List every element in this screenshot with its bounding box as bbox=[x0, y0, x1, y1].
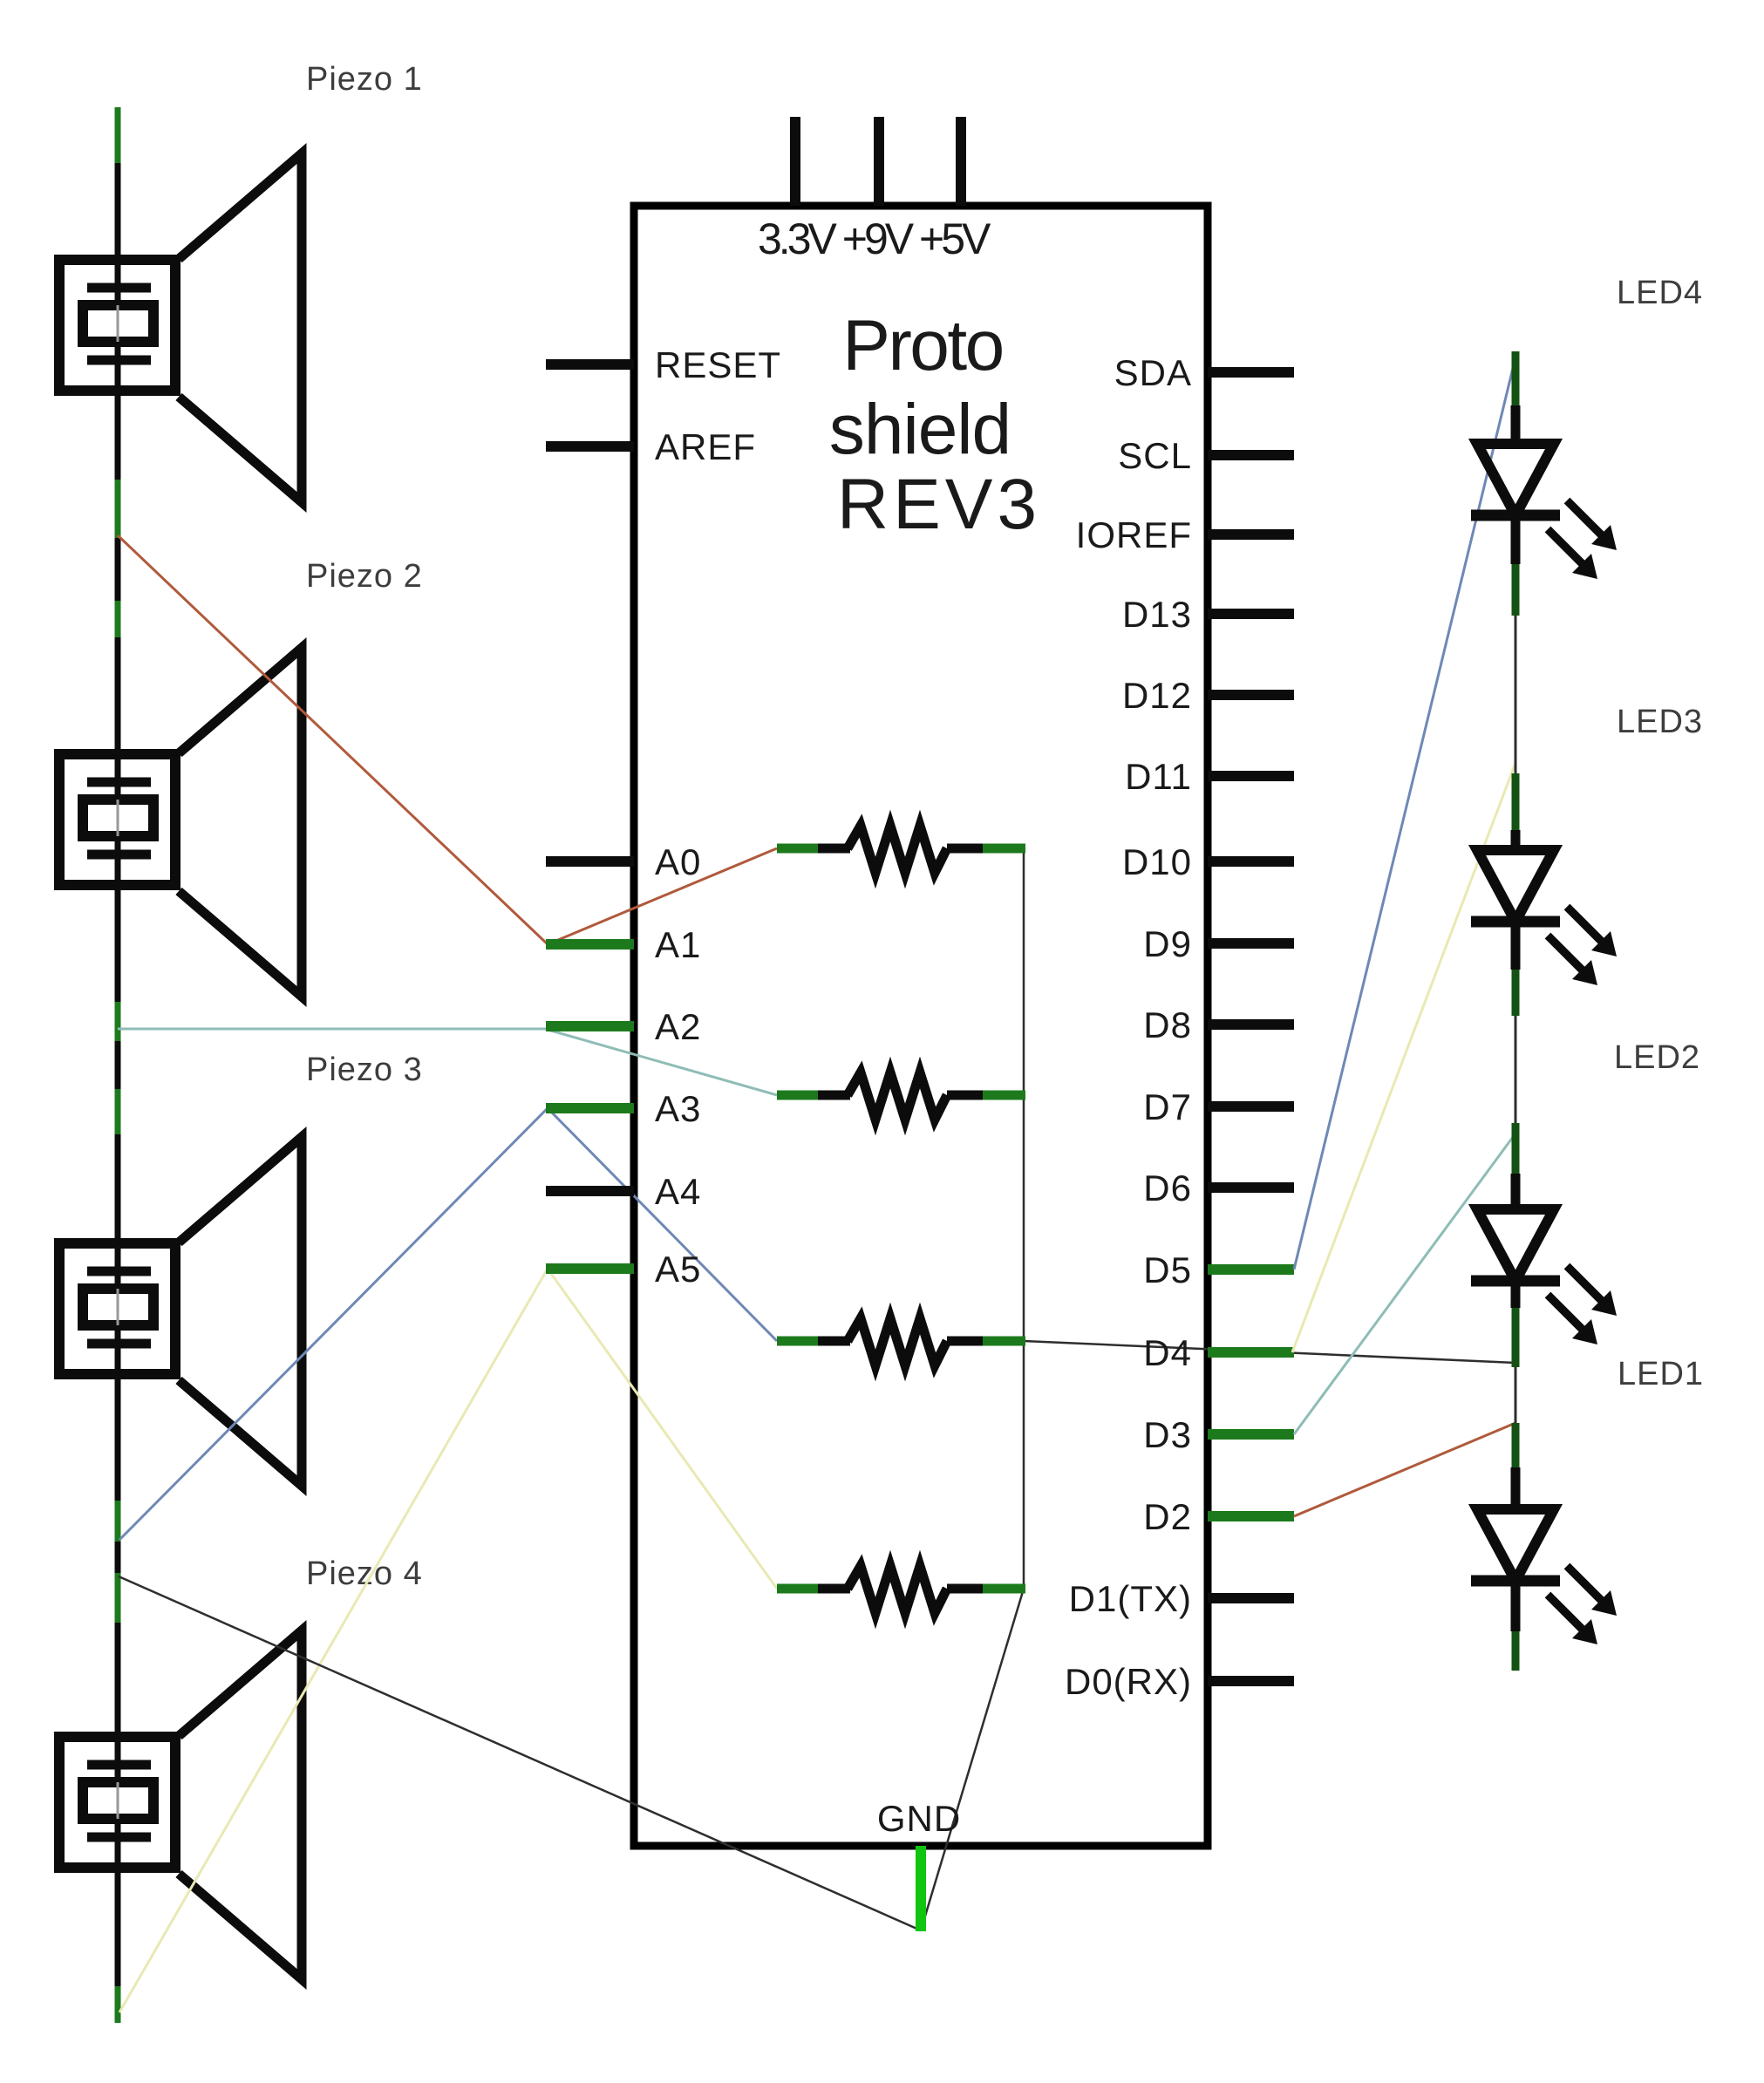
pin SCL bbox=[1118, 435, 1294, 476]
wire piezo4 top lead end (green) bbox=[115, 1573, 121, 1623]
wire pin D2 to LED1 anode (red) bbox=[1294, 1423, 1515, 1516]
wire Piezo1(+) to pin A1 (orange) bbox=[118, 535, 548, 944]
wire Piezo2(+) to pin A2 (teal) bbox=[118, 1028, 548, 1031]
svg-text:LED1: LED1 bbox=[1618, 1356, 1704, 1392]
label LED4 bbox=[1617, 275, 1703, 311]
label 3.3V +9V +5V power pins bbox=[758, 214, 991, 263]
wire pin D4 to LED3 anode (yellow) bbox=[1292, 763, 1515, 1352]
svg-text:LED4: LED4 bbox=[1617, 275, 1703, 311]
wire piezo2 top lead end (green) bbox=[115, 601, 121, 637]
LED D2 (LED2) bbox=[1471, 1123, 1617, 1367]
svg-text:Piezo 1: Piezo 1 bbox=[306, 61, 423, 98]
wire piezo column vertical bus bbox=[115, 107, 121, 2023]
svg-text:A0: A0 bbox=[655, 841, 701, 882]
svg-text:D2: D2 bbox=[1143, 1496, 1192, 1537]
label Proto shield REV3 title bbox=[829, 306, 1041, 544]
svg-text:A3: A3 bbox=[655, 1088, 701, 1129]
piezo buzzer Piezo 1 bbox=[59, 153, 302, 502]
pin GND (ground stub) bbox=[877, 1798, 961, 1931]
pin +9V (top power pin) bbox=[874, 117, 884, 206]
label Piezo 3 bbox=[306, 1052, 423, 1088]
pin A1 bbox=[546, 924, 701, 965]
pin D6 bbox=[1143, 1167, 1294, 1208]
svg-text:A2: A2 bbox=[655, 1006, 701, 1047]
wire resistor R3 / pin D4 to LED1 anode junction (black) bbox=[1024, 1341, 1515, 1363]
pin D12 bbox=[1122, 675, 1294, 716]
pin SDA bbox=[1114, 352, 1294, 393]
wire Piezo4(+) to pin A5 (yellow) bbox=[119, 1269, 548, 2012]
wire LED3 cathode to LED2 anode (black) bbox=[1515, 1016, 1517, 1123]
label LED2 bbox=[1614, 1039, 1700, 1076]
svg-text:D7: D7 bbox=[1143, 1086, 1192, 1127]
pin A0 bbox=[546, 841, 701, 882]
svg-text:Piezo 3: Piezo 3 bbox=[306, 1052, 423, 1088]
resistor R4 bbox=[777, 1566, 1025, 1613]
svg-text:SDA: SDA bbox=[1114, 352, 1192, 393]
svg-text:AREF: AREF bbox=[655, 426, 756, 467]
resistor R3 bbox=[777, 1318, 1025, 1365]
wire GND to resistor R4 right lead (black) bbox=[921, 1589, 1024, 1930]
wire piezo1 bottom lead end (green) bbox=[115, 480, 121, 538]
LED D4 (LED4) bbox=[1471, 351, 1617, 616]
svg-text:D3: D3 bbox=[1143, 1414, 1192, 1455]
pin 3.3V (top power pin) bbox=[790, 117, 800, 206]
svg-text:D0(RX): D0(RX) bbox=[1065, 1661, 1192, 1702]
pin A2 bbox=[546, 1006, 701, 1047]
pin D3 bbox=[1143, 1414, 1294, 1455]
pin D0(RX) bbox=[1065, 1661, 1294, 1702]
wire piezo3 top lead end (green) bbox=[115, 1089, 121, 1134]
pin +5V (top power pin) bbox=[956, 117, 966, 206]
piezo buzzer Piezo 3 bbox=[59, 1137, 302, 1486]
pin D9 bbox=[1143, 923, 1294, 964]
svg-text:Proto: Proto bbox=[842, 306, 1003, 385]
pin D2 bbox=[1143, 1496, 1294, 1537]
LED D1 (LED1) bbox=[1471, 1423, 1617, 1671]
svg-text:shield: shield bbox=[829, 390, 1011, 469]
piezo buzzer Piezo 4 bbox=[59, 1630, 302, 1979]
wire piezo4 bottom lead end (green) bbox=[115, 1986, 121, 2023]
svg-text:GND: GND bbox=[877, 1798, 961, 1839]
pin IOREF bbox=[1076, 514, 1294, 555]
pin A4 bbox=[546, 1171, 701, 1212]
wire piezo3 bottom lead end (green) bbox=[115, 1501, 121, 1542]
pin RESET bbox=[546, 344, 781, 385]
svg-text:A5: A5 bbox=[655, 1249, 701, 1290]
IC proto shield body outline bbox=[634, 206, 1208, 1846]
wire pin D5 to LED4 anode (blue) bbox=[1294, 357, 1515, 1270]
label LED1 bbox=[1618, 1356, 1704, 1392]
svg-text:Piezo 2: Piezo 2 bbox=[306, 558, 423, 595]
svg-text:IOREF: IOREF bbox=[1076, 514, 1192, 555]
pin D11 bbox=[1125, 756, 1294, 797]
svg-text:REV3: REV3 bbox=[837, 465, 1041, 544]
pin D10 bbox=[1122, 841, 1294, 882]
svg-text:D1(TX): D1(TX) bbox=[1069, 1578, 1192, 1619]
resistor R2 bbox=[777, 1072, 1025, 1120]
pin D5 bbox=[1143, 1249, 1294, 1290]
svg-text:A4: A4 bbox=[655, 1171, 701, 1212]
pin D8 bbox=[1143, 1004, 1294, 1045]
label Piezo 1 bbox=[306, 61, 423, 98]
svg-text:D10: D10 bbox=[1122, 841, 1192, 882]
pin D1(TX) bbox=[1069, 1578, 1294, 1619]
wire resistor common bus vertical (black) bbox=[1023, 852, 1025, 1589]
svg-text:D12: D12 bbox=[1122, 675, 1192, 716]
svg-text:SCL: SCL bbox=[1118, 435, 1192, 476]
wire pin A1 to resistor R1 left lead (orange) bbox=[548, 848, 777, 944]
wire piezo2 bottom lead end (green) bbox=[115, 1002, 121, 1041]
pin D7 bbox=[1143, 1086, 1294, 1127]
label LED3 bbox=[1617, 704, 1703, 740]
label Piezo 4 bbox=[306, 1555, 423, 1592]
wire pin A3 to resistor R3 left lead (blue) bbox=[548, 1108, 777, 1341]
wire pin A2 to resistor R2 left lead (teal) bbox=[548, 1030, 777, 1095]
svg-text:D8: D8 bbox=[1143, 1004, 1192, 1045]
wire LED2 cathode to LED1 anode (black) bbox=[1515, 1367, 1517, 1423]
piezo buzzer Piezo 2 bbox=[59, 648, 302, 997]
wire Piezo4(-) to GND (black) bbox=[119, 1576, 921, 1930]
LED D3 (LED3) bbox=[1471, 773, 1617, 1016]
svg-text:D9: D9 bbox=[1143, 923, 1192, 964]
svg-text:D4: D4 bbox=[1143, 1332, 1192, 1373]
pin A5 bbox=[546, 1249, 701, 1290]
svg-text:D13: D13 bbox=[1122, 594, 1192, 635]
svg-text:3.3V +9V +5V: 3.3V +9V +5V bbox=[758, 214, 991, 263]
pin A3 bbox=[546, 1088, 701, 1129]
svg-text:LED2: LED2 bbox=[1614, 1039, 1700, 1076]
wire LED4 cathode to LED3 anode (black) bbox=[1515, 616, 1517, 773]
svg-text:D6: D6 bbox=[1143, 1167, 1192, 1208]
svg-text:LED3: LED3 bbox=[1617, 704, 1703, 740]
wire Piezo3(+) to pin A3 (blue) bbox=[119, 1108, 548, 1540]
svg-text:RESET: RESET bbox=[655, 344, 781, 385]
wire pin D3 to LED2 anode (teal) bbox=[1294, 1133, 1515, 1434]
svg-text:A1: A1 bbox=[655, 924, 701, 965]
pin D4 bbox=[1143, 1332, 1294, 1373]
pin AREF bbox=[546, 426, 756, 467]
wire piezo1 top lead end (green) bbox=[115, 107, 121, 163]
label Piezo 2 bbox=[306, 558, 423, 595]
svg-text:D5: D5 bbox=[1143, 1249, 1192, 1290]
resistor R1 bbox=[777, 826, 1025, 873]
pin D13 bbox=[1122, 594, 1294, 635]
wire pin A5 to resistor R4 left lead (yellow) bbox=[548, 1269, 777, 1589]
svg-text:D11: D11 bbox=[1125, 756, 1192, 797]
